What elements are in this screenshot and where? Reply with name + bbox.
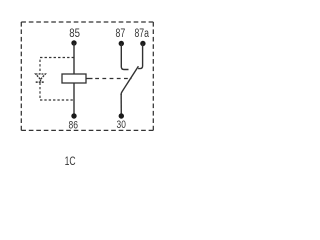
svg-text:1C: 1C [65, 154, 76, 168]
terminal 86 pin dot [71, 113, 76, 118]
svg-text:87: 87 [116, 28, 126, 40]
svg-text:30: 30 [117, 119, 126, 131]
wire 87 stationary contact [121, 44, 128, 70]
wire 87a stationary contact [138, 44, 143, 69]
terminal 30 pin dot [119, 113, 124, 118]
terminal 85 pin dot [71, 40, 76, 45]
relay housing dashed outline [21, 22, 153, 130]
wire 85 to coil [73, 43, 75, 74]
wire diode branch bottom (dashed) [40, 83, 74, 100]
mechanical link coil to lever (dashed) [86, 78, 93, 80]
svg-text:86: 86 [69, 120, 79, 132]
svg-text:85: 85 [69, 28, 80, 40]
svg-text:87a: 87a [135, 28, 150, 40]
terminal 87 pin dot [119, 41, 124, 46]
wire coil to 86 [73, 83, 75, 116]
diode D1 (dashed symbol) [36, 74, 46, 82]
wire lever to 30 [120, 94, 122, 116]
terminal 87a pin dot [140, 41, 145, 46]
coil K1 [62, 74, 86, 83]
switch lever (movable contact 30-87a) [121, 66, 138, 95]
wire diode branch top (dashed) [40, 58, 74, 75]
